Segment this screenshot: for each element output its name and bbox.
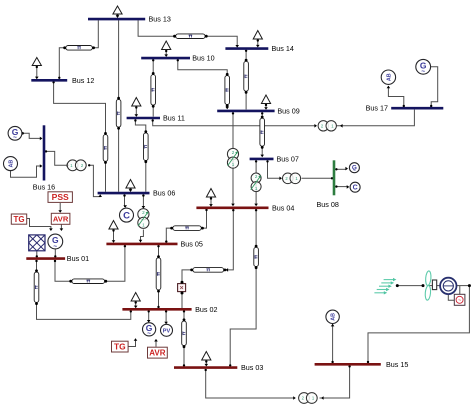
wire Bus02 to line L02-03 to Bus03	[183, 310, 185, 366]
regulator box TG1	[11, 214, 26, 224]
svg-text:~: ~	[147, 330, 151, 337]
svg-text:Bus 04: Bus 04	[272, 203, 294, 212]
svg-text:Bus 11: Bus 11	[163, 114, 185, 123]
transmission line L13-14	[173, 34, 208, 39]
label Bus 04	[272, 203, 294, 212]
wire Bus06 to compensator C1	[123, 194, 127, 207]
svg-text:AVR: AVR	[149, 349, 166, 358]
regulator box AVR1	[51, 213, 70, 224]
label Bus 03	[241, 363, 263, 372]
wire wind generator to converter box	[448, 294, 454, 300]
load at Bus 03	[202, 352, 211, 367]
svg-text:PV: PV	[163, 328, 171, 334]
svg-text:~: ~	[53, 243, 57, 250]
bus Bus 15	[315, 363, 381, 366]
transmission line L10-11	[151, 72, 156, 108]
svg-text:~: ~	[421, 69, 425, 76]
svg-text:Bus 02: Bus 02	[195, 305, 217, 314]
wire Bus07 to transformer T7 to Bus04	[254, 160, 258, 206]
wire generator to node	[456, 284, 471, 287]
transmission line L11-06	[144, 130, 149, 163]
compensator C1 at Bus06	[120, 208, 134, 222]
wire Bus09 to line L09-07 to Bus07	[260, 112, 264, 157]
load at Bus 13	[113, 6, 122, 18]
wire stabilizer PSS to regulator AVR1	[58, 203, 62, 213]
wire regulator AVR2 to generator G3	[154, 339, 158, 347]
transmission line L13-12	[63, 46, 95, 51]
label Bus 07	[277, 154, 299, 163]
wire Bus02 to device FV	[164, 310, 168, 324]
label Bus 14	[272, 44, 294, 53]
svg-text:Bus 06: Bus 06	[153, 189, 175, 198]
svg-text:Bus 12: Bus 12	[72, 76, 94, 85]
label Bus 08	[317, 200, 339, 209]
svg-text:TG: TG	[13, 215, 24, 224]
wire transformer T1 to Bus06	[89, 165, 103, 197]
svg-text:2: 2	[255, 174, 258, 179]
load at Bus 05	[109, 221, 118, 243]
wire wind source to turbine	[396, 284, 425, 287]
svg-text:Bus 14: Bus 14	[272, 44, 294, 53]
wire Bus11 to line L11-06 to Bus06	[134, 119, 146, 192]
label Bus 12	[72, 76, 94, 85]
wire line L05-04 to Bus04	[202, 209, 208, 228]
stabilizer box PSS	[48, 192, 72, 203]
svg-text:1: 1	[255, 186, 258, 191]
transformer T5 Bus09-Bus04 (LTC)	[227, 148, 238, 168]
svg-text:~: ~	[13, 135, 17, 142]
bus Bus 08 (vertical)	[333, 160, 336, 195]
label Bus 13	[149, 15, 171, 24]
svg-text:Bus 16: Bus 16	[33, 182, 55, 191]
transmission line L02-03	[182, 318, 187, 348]
label Bus 15	[386, 360, 408, 369]
label Bus 17	[366, 104, 388, 113]
wire generator G1 to Bus16	[21, 132, 42, 140]
generator G1 at Bus16	[8, 126, 22, 141]
svg-text:~: ~	[458, 298, 461, 304]
transmission line L14-09	[244, 59, 249, 94]
wire line L01-05 to Bus05	[106, 245, 127, 281]
transmission line L09-07	[260, 116, 265, 149]
transformer T7 Bus07-Bus04 (LTC)	[251, 173, 261, 192]
regulator box AVR2	[148, 347, 168, 358]
bus Bus 12	[31, 79, 67, 82]
wire generator G2 to Bus01	[54, 249, 56, 257]
wire Bus09 to transformer T5 to Bus04	[231, 112, 235, 206]
measurement M2 at Bus17	[381, 70, 395, 84]
wire regulator AVR1 to generator G2	[60, 225, 64, 232]
svg-text:2: 2	[232, 150, 235, 155]
device PV at Bus02	[161, 324, 173, 336]
transformer T6 Bus06-Bus05 (LTC)	[138, 209, 149, 229]
wire Bus06 to transformer T6	[142, 194, 146, 208]
svg-text:TG: TG	[114, 342, 126, 352]
bus Bus 03	[174, 366, 237, 369]
svg-text:~: ~	[353, 168, 356, 174]
generator G4 at Bus08	[349, 163, 359, 174]
transformer T2 Bus11-Bus17	[318, 121, 336, 131]
bus Bus 09	[217, 110, 274, 113]
wind generator machine	[440, 278, 456, 294]
transmission line L10-09	[225, 73, 230, 107]
bus Bus 07	[250, 158, 274, 161]
gearbox	[432, 280, 436, 290]
svg-text:AB: AB	[331, 313, 337, 321]
wire Bus03 to transformer T4	[205, 369, 296, 400]
load at Bus 06	[126, 180, 135, 193]
label Bus 09	[277, 106, 299, 115]
wire Bus12 to line L12-06 to Bus06	[52, 81, 105, 192]
load at Bus 14	[253, 31, 262, 48]
transmission line L04-02	[190, 268, 226, 273]
wire measurement M2 to Bus17	[387, 86, 405, 108]
transmission line L05-04	[170, 226, 204, 231]
bus Bus 17	[391, 107, 443, 110]
wire Bus11 to transformer T2	[152, 119, 318, 127]
bus Bus 06	[98, 192, 150, 195]
wire Bus15 to wind generator	[367, 286, 470, 364]
wire Bus07 to transformer T3	[266, 160, 282, 180]
load at Bus 09	[261, 95, 270, 110]
converter box	[454, 294, 465, 305]
wire Bus02 to generator G3	[147, 310, 151, 322]
transformer T4 Bus03-Bus15	[299, 393, 318, 404]
svg-text:1: 1	[232, 162, 235, 167]
transmission line L12-06	[103, 132, 108, 164]
svg-text:Bus 10: Bus 10	[192, 54, 214, 63]
wire turbine to gearbox to generator	[429, 285, 440, 287]
wire transformer T2 to Bus17	[336, 110, 414, 128]
svg-text:PSS: PSS	[52, 192, 69, 202]
transmission line L04-03	[254, 245, 259, 269]
svg-text:2: 2	[142, 210, 145, 215]
wire measurement M3 to Bus15	[331, 324, 335, 363]
transmission line L13-06	[116, 97, 121, 130]
wire Bus08 to compensator C2	[335, 185, 349, 189]
bus Bus 10	[141, 57, 190, 60]
svg-text:AVR: AVR	[53, 215, 69, 224]
wire measurement M1 to Bus16	[11, 164, 43, 177]
measurement M3 at Bus15	[326, 310, 339, 323]
wire Bus01 to line L01-05	[54, 260, 71, 281]
label Bus 01	[67, 254, 89, 263]
machine block (crosshatch) at Bus01	[29, 235, 45, 251]
load at Bus 04	[206, 189, 215, 207]
wire regulator TG2 to generator G3	[128, 338, 137, 346]
transformer T1 Bus16-Bus06	[67, 160, 90, 171]
wire transformer T3 to Bus08	[302, 177, 334, 179]
svg-text:AB: AB	[386, 73, 392, 81]
bus Bus 11	[127, 117, 160, 120]
wire Bus13 to line L13-06 to Bus06	[118, 20, 120, 192]
svg-text:Bus 09: Bus 09	[277, 106, 299, 115]
svg-text:Bus 17: Bus 17	[366, 104, 388, 113]
wire Bus08 to generator G4	[335, 167, 348, 171]
fault block X on line L04-02	[178, 281, 186, 295]
wire converter box to node wire	[459, 286, 461, 295]
label Bus 11	[163, 114, 185, 123]
bus Bus 16 (vertical)	[43, 125, 46, 180]
label Bus 10	[192, 54, 214, 63]
wire Bus16 to transformer T1	[45, 150, 70, 167]
transmission line L05-02	[156, 255, 161, 292]
wire Bus13 to line L13-14 to Bus14	[138, 20, 239, 47]
svg-text:Bus 01: Bus 01	[67, 254, 89, 263]
wire transformer T6 to Bus05	[139, 230, 144, 243]
wire Bus13 to line L13-12 to Bus12	[58, 20, 98, 79]
regulator box TG2	[112, 341, 129, 352]
wire Bus01 to line L01-02 to Bus02	[35, 260, 132, 320]
wire transformer T4 to Bus15	[320, 365, 351, 400]
transmission line L01-02	[34, 269, 39, 305]
svg-text:C: C	[123, 211, 130, 222]
transmission line L01-05	[69, 279, 107, 284]
bus Bus 13	[88, 18, 145, 21]
bus Bus 01	[26, 257, 65, 260]
generator G5 at Bus17	[416, 59, 431, 75]
wire Bus10 to line L10-09 to Bus09	[177, 59, 229, 109]
wire line L04-02 to fault X to Bus02	[182, 270, 192, 308]
load at Bus 02	[131, 293, 140, 309]
label Bus 05	[181, 239, 203, 248]
svg-text:1: 1	[142, 222, 145, 227]
bus Bus 04	[196, 207, 268, 210]
label Bus 06	[153, 189, 175, 198]
svg-text:Bus 07: Bus 07	[277, 154, 299, 163]
transformer T3 Bus07-Bus08	[283, 173, 301, 184]
bus Bus 14	[225, 47, 268, 50]
svg-text:AB: AB	[9, 160, 15, 168]
wire Bus04 to line L04-03 to Bus03	[229, 209, 257, 367]
bus Bus 02	[122, 308, 191, 311]
wire Bus04 to line L04-02	[226, 209, 235, 272]
wire Bus05 to line L05-04	[165, 228, 171, 243]
wire machine block to Bus01	[36, 251, 38, 258]
bus Bus 05	[106, 243, 177, 246]
generator G3 at Bus02	[143, 323, 156, 338]
compensator C2 at Bus08	[350, 182, 360, 192]
load at Bus 11	[132, 98, 141, 117]
svg-text:Bus 05: Bus 05	[181, 239, 203, 248]
svg-text:Bus 03: Bus 03	[241, 363, 263, 372]
wire generator G5 to Bus17	[430, 67, 438, 107]
generator G2 at Bus01	[48, 234, 63, 250]
load at Bus 10	[162, 41, 171, 57]
svg-text:Bus 08: Bus 08	[317, 200, 339, 209]
wire regulator TG1 to generator G2	[27, 219, 53, 232]
wind turbine blades	[425, 271, 432, 301]
wire Bus05 to line L05-02 to Bus02	[157, 245, 159, 308]
svg-text:Bus 15: Bus 15	[386, 360, 408, 369]
wire Bus10 to line L10-11 to Bus11	[152, 59, 154, 117]
label Bus 02	[195, 305, 217, 314]
wind source symbol	[374, 278, 396, 295]
measurement M1 at Bus16	[4, 157, 18, 171]
svg-text:Bus 13: Bus 13	[149, 15, 171, 24]
svg-text:C: C	[353, 185, 358, 192]
load at Bus 12	[32, 58, 41, 80]
wire Bus14 to line L14-09 to Bus09	[245, 50, 247, 110]
label Bus 16	[33, 182, 55, 191]
